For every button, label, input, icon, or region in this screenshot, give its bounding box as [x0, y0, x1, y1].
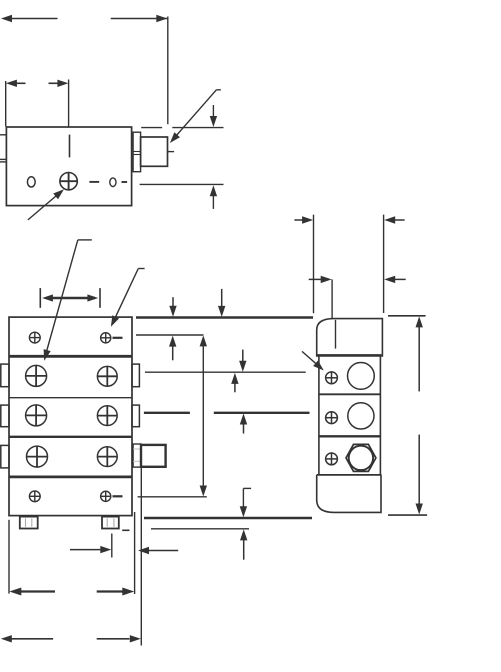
height dim top extension — [388, 315, 426, 317]
station B right screw — [97, 406, 117, 426]
screw-to-screw vertical dimension line — [200, 335, 207, 496]
side view depth dim - left extension — [313, 215, 315, 314]
extension line at connector top (dashed) — [141, 127, 223, 129]
top-plate screw line — [136, 334, 204, 336]
side screw row 1 — [326, 372, 338, 384]
side screw row 3 — [326, 453, 338, 465]
right tab station A — [132, 364, 139, 387]
left mounting foot — [20, 517, 38, 529]
overall width dimension line (top) — [1, 15, 168, 124]
down arrow pair onto top face — [169, 289, 225, 317]
left tab station B — [1, 405, 9, 427]
station B center line — [144, 412, 310, 414]
right mounting foot — [102, 517, 119, 529]
extension line below connector — [140, 183, 224, 185]
side view cap/block boundary — [317, 354, 382, 356]
top view centerline tick — [69, 135, 71, 158]
leader arrow to screw (top view) — [28, 189, 64, 220]
height dim bottom extension — [388, 514, 427, 516]
top plate right screw — [101, 333, 111, 343]
bottom plate dash — [113, 495, 123, 497]
body right edge extension line — [134, 512, 136, 594]
connector flange (top view) — [133, 132, 141, 172]
connector flange (front view) — [133, 444, 141, 467]
foot offset dim - right arrow — [70, 546, 111, 553]
body width dimension (row 1) — [9, 588, 134, 596]
connector height dim - down arrow — [210, 105, 217, 127]
separator station-C/bottom-plate — [9, 475, 132, 478]
leader arrow to end-plate screw (front view) — [111, 269, 145, 327]
right tab station B — [132, 405, 139, 427]
connector height dim - up arrow — [210, 185, 217, 209]
top face extension line (heavy) — [136, 316, 313, 319]
depth dim arrows (upper) — [294, 216, 404, 223]
dash right of foot — [122, 529, 129, 531]
side view row boundary 1 — [319, 393, 381, 395]
center dash left — [89, 181, 99, 183]
separator station-B/C — [9, 436, 132, 438]
foot offset dim - left arrow — [138, 547, 178, 554]
station B left screw — [26, 405, 47, 426]
leader arrow to station screw (front view) — [44, 240, 92, 361]
bottom plate right screw — [101, 491, 111, 501]
side view row boundary 2 — [319, 435, 381, 437]
connector datum extension line — [140, 466, 142, 646]
side view inner-face extension — [331, 279, 333, 318]
bottom plate left screw — [29, 491, 40, 502]
bottom-plate screw line — [138, 496, 207, 498]
front view body outline — [9, 317, 132, 515]
connector plug (front view) — [141, 445, 166, 467]
top plate dash — [113, 337, 123, 339]
depth dim arrows (lower) — [309, 276, 406, 283]
side screw row 2 — [326, 412, 338, 424]
top view small port hole — [110, 178, 116, 187]
station C right screw — [97, 447, 117, 467]
station A left screw — [26, 365, 47, 386]
side view block/bottom-cap boundary — [317, 474, 382, 476]
top view screw symbol — [60, 173, 77, 190]
screw spacing dimension (double arrow) — [40, 288, 100, 308]
top view mounting hole (ellipse) — [27, 177, 35, 187]
foot height dim - bent down arrow — [240, 488, 251, 517]
center dash right — [122, 181, 128, 183]
side view cap inner edge — [335, 320, 337, 349]
leader arrow to side screw — [302, 351, 324, 370]
side view bottom cap — [317, 475, 381, 513]
down arrow to station A line — [239, 350, 246, 372]
top view left tab — [0, 135, 6, 162]
screw-offset dimension (top view) — [6, 80, 69, 127]
station C left screw — [27, 446, 48, 467]
connector plug (top view) — [141, 137, 168, 166]
up arrow to station B line — [240, 414, 247, 434]
foot center extension line — [111, 534, 113, 558]
top view body outline — [6, 127, 131, 206]
station A center line — [145, 371, 306, 373]
connector pin tick — [168, 151, 175, 153]
overall height dimension line — [416, 316, 423, 514]
port circle row 1 — [348, 363, 375, 390]
port circle row 2 — [348, 403, 374, 429]
leader arrow to connector — [170, 90, 221, 143]
side view top cap — [317, 319, 383, 356]
foot height dim - up arrow — [240, 529, 247, 559]
hex plug row 3 — [346, 444, 376, 471]
overall width dimension (row 2) — [1, 635, 141, 642]
side view station block — [319, 356, 381, 475]
up arrow under station A line — [231, 373, 238, 392]
left tab station A — [1, 364, 9, 387]
separator top-plate/station-A — [9, 355, 132, 358]
body left extension line — [8, 520, 10, 594]
foot bottom line — [151, 528, 249, 530]
up arrow to top-plate screw line — [169, 336, 176, 361]
station A right screw — [97, 366, 117, 386]
separator station-A/B — [9, 397, 132, 399]
side view right extension — [383, 215, 385, 313]
top plate left screw — [29, 332, 40, 343]
left tab station C — [1, 445, 9, 468]
bottom face extension line (heavy) — [144, 517, 312, 520]
